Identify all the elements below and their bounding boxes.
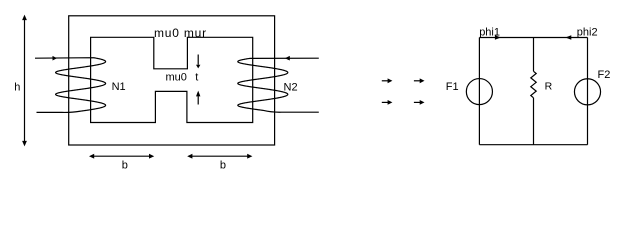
current arrow into N2 [285, 56, 290, 61]
implies arrow bottom-right [414, 100, 425, 105]
svg-text:b: b [122, 160, 128, 172]
svg-text:mu0: mu0 [166, 71, 187, 83]
flux arrow phi2 [565, 35, 571, 39]
implies arrow bottom-left [382, 100, 393, 105]
gap dimension arrow down [196, 55, 200, 69]
winding N1 [35, 58, 106, 113]
svg-text:N1: N1 [112, 81, 126, 93]
source F2 [574, 79, 600, 105]
wire circuit middle branch lower [533, 98, 535, 145]
svg-text:R: R [545, 80, 553, 92]
current arrow into N1 [53, 56, 58, 61]
wire circuit middle branch upper [533, 38, 535, 72]
svg-text:h: h [14, 82, 20, 94]
wire circuit right branch [587, 38, 589, 145]
flux arrow phi1 [495, 35, 501, 39]
dimension arrow b right [187, 154, 252, 159]
resistor R [531, 71, 536, 98]
svg-text:F1: F1 [446, 81, 459, 93]
core outer boundary [69, 16, 275, 145]
svg-text:F2: F2 [598, 69, 611, 81]
implies arrow top-right [414, 78, 425, 83]
svg-text:phi2: phi2 [577, 27, 598, 39]
core window outline with center limb and air gap [91, 37, 253, 122]
dimension arrow b left [89, 154, 154, 159]
svg-text:N2: N2 [284, 81, 298, 93]
gap dimension arrow up [196, 91, 200, 105]
wire circuit top [479, 37, 587, 39]
winding N2 [238, 58, 319, 112]
dimension arrow h [22, 15, 27, 147]
svg-text:mu0 mur: mu0 mur [154, 26, 207, 40]
wire circuit bottom [479, 144, 587, 146]
svg-text:phi1: phi1 [479, 27, 500, 39]
implies arrow top-left [382, 78, 393, 83]
wire circuit left branch [478, 38, 480, 145]
svg-text:b: b [220, 160, 226, 172]
svg-text:t: t [195, 71, 198, 83]
source F1 [466, 79, 492, 105]
